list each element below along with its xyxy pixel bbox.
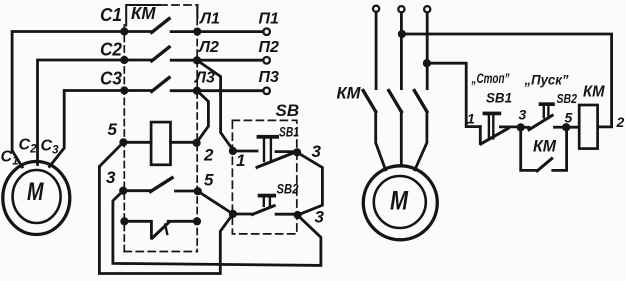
push button SB2 start (right schematic) [521,126,529,129]
svg-text:5: 5 [565,110,573,126]
supply terminal C [424,6,430,12]
thermal node right [193,217,201,225]
svg-text:3: 3 [106,168,116,187]
svg-text:С1: С1 [1,149,19,168]
svg-text:5: 5 [204,171,214,190]
svg-text:Л3: Л3 [194,70,215,87]
svg-text:SB2: SB2 [557,91,578,106]
node phase B tap [398,30,406,38]
motor M (right schematic) [363,166,437,240]
svg-text:П3: П3 [259,69,280,86]
coil KM (left schematic) [151,122,170,165]
push button SB1 stop (left schematic) [233,150,257,153]
node C3 [120,86,128,94]
dashed mechanical link of contactor KM (right vertical through L nodes) [196,8,198,252]
svg-text:3: 3 [312,142,322,161]
svg-text:1: 1 [236,151,245,170]
svg-text:Л1: Л1 [199,10,220,27]
dashed mechanical link of contactor KM (left vertical through C nodes) [123,25,125,252]
node 1 [229,147,237,155]
supply terminal A [373,6,379,12]
wire supply phase C2 [38,60,125,165]
contactor KM auxiliary contact (right schematic) [521,127,538,170]
svg-text:КМ: КМ [131,3,156,23]
svg-text:SB1: SB1 [486,91,512,106]
contactor KM auxiliary contact 3-5 (left schematic) [123,189,150,192]
node SB2 left [229,210,237,218]
svg-text:SB: SB [276,101,300,120]
coil KM (right schematic) [579,105,597,149]
KM bracket (dashed frame around KM label) [126,5,160,26]
svg-text:КМ: КМ [337,84,362,103]
svg-text:П2: П2 [259,39,280,56]
svg-text:С2: С2 [100,40,122,60]
svg-text:SB2: SB2 [277,182,299,197]
svg-text:С1: С1 [100,5,122,25]
node L3 [193,87,201,95]
contactor KM main contact row 3 (C3-L3) [124,89,151,92]
supply terminal B [398,6,404,12]
node 5 (right schematic) [562,123,570,131]
node 5 [119,138,127,146]
wire node 5 to coil [566,126,579,129]
contactor KM main contact phase A (right schematic) [375,12,378,89]
contactor KM main contact phase C [426,12,429,88]
node 3 (right schematic) [517,123,525,131]
wire supply phase C1 (left schematic) [12,32,124,168]
svg-text:3: 3 [519,107,527,123]
svg-text:С3: С3 [100,69,122,89]
svg-text:КМ: КМ [533,137,557,156]
node L2 [193,56,201,64]
push button SB1 stop (right schematic) [479,127,482,144]
wire coil to node 2 [171,141,197,144]
push-button station SB dashed box [232,120,296,233]
wire net 3 (node 3 to SB right side via bottom) [113,191,321,266]
wire tap from node L3 to node 2 [197,91,209,143]
wire node 5 aux to SB2 left terminal [198,191,233,214]
wire net 5 (node 5 to SB2 left via bottom) [99,142,233,273]
svg-text:М: М [390,186,408,216]
wire phase C to node 1 [427,63,480,126]
motor M (left schematic) [3,162,70,235]
wire linking SB1 right to SB2 right (net 3) [297,152,322,215]
node C1 [120,27,128,35]
svg-text:2: 2 [616,114,625,130]
wire supply phase C3 [50,91,125,167]
svg-text:П1: П1 [259,11,280,28]
node 3 [119,187,127,195]
thermal relay heater element (left schematic) [124,221,151,238]
terminal P2 [263,57,270,64]
node 2 [193,139,201,147]
wire node 5 to coil [123,141,151,144]
contactor KM main contact row 1 (C1-L1) [124,30,151,33]
svg-text:1: 1 [467,111,475,127]
node 5 aux [194,187,202,195]
svg-text:„Стоп”: „Стоп” [471,71,510,86]
push button SB2 start (left schematic) [233,213,253,216]
node L1 [193,28,201,36]
svg-text:5: 5 [108,120,118,139]
svg-text:С3: С3 [41,138,60,157]
node phase C tap [423,59,431,67]
wire tap from node L2 to node 1 [197,60,233,150]
svg-text:2: 2 [203,146,214,165]
svg-text:М: М [27,178,44,206]
node C2 [120,56,128,64]
contactor KM main contact row 2 (C2-L2) [124,59,151,62]
svg-text:3: 3 [315,208,325,227]
svg-text:С2: С2 [19,137,38,156]
contactor KM main contact phase B [400,12,403,88]
thermal node left [120,217,128,225]
node SB2 right [294,211,302,219]
terminal P1 [263,28,270,35]
dashed bottom edge of contactor KM block [124,251,197,253]
svg-text:Л2: Л2 [198,39,219,56]
svg-text:SB1: SB1 [279,125,299,140]
svg-text:„Пуск”: „Пуск” [524,73,569,88]
svg-text:КМ: КМ [583,84,605,101]
node SB1 right [293,148,301,156]
terminal P3 [263,88,270,95]
wire phase B to coil node 2 [402,34,612,127]
